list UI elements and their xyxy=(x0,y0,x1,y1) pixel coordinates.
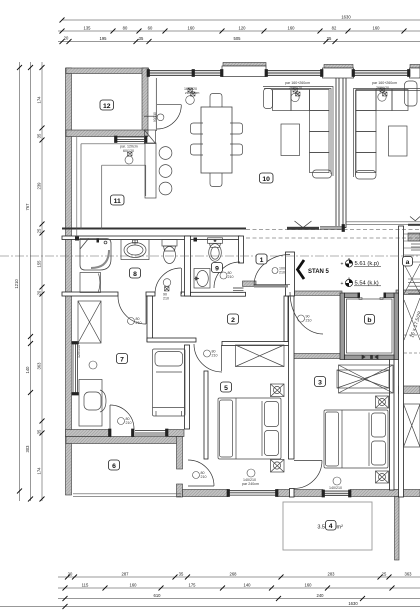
wardrobe room7 xyxy=(78,301,101,343)
nightstand room5 bottom xyxy=(271,460,285,473)
bed room5 double xyxy=(218,398,281,459)
svg-text:210: 210 xyxy=(306,319,312,323)
svg-text:6: 6 xyxy=(112,463,116,470)
desk room7 xyxy=(79,380,102,427)
svg-text:260/120: 260/120 xyxy=(289,86,302,90)
wall bathroom top xyxy=(62,236,240,240)
wall rooms 7-5 xyxy=(185,345,190,429)
svg-text:5: 5 xyxy=(224,385,228,392)
label 10 xyxy=(260,173,274,183)
svg-text:3: 3 xyxy=(318,380,322,387)
nightstand room3 top xyxy=(376,396,389,408)
svg-text:+: + xyxy=(341,262,344,268)
label 4 balcony xyxy=(326,521,337,531)
svg-text:90/210: 90/210 xyxy=(153,112,157,122)
dimension lines bottom xyxy=(0,577,420,607)
svg-text:363: 363 xyxy=(405,572,413,577)
svg-text:7: 7 xyxy=(120,357,124,364)
wall top niche strip 2 xyxy=(324,65,353,69)
svg-text:160: 160 xyxy=(288,26,296,31)
dimension lines left xyxy=(20,62,43,501)
wall stub east xyxy=(204,371,208,459)
svg-text:25: 25 xyxy=(382,572,387,577)
doors xyxy=(110,78,323,489)
dim top row1 xyxy=(62,19,420,21)
wall hall east xyxy=(284,296,288,342)
door vestibule xyxy=(290,292,323,334)
balcony door V mark apt2 xyxy=(410,217,420,221)
thin interior walls xyxy=(62,226,404,497)
corridor parapet sill xyxy=(320,226,344,229)
bed room3 double xyxy=(324,410,388,468)
svg-text:115: 115 xyxy=(82,583,89,588)
svg-text:82: 82 xyxy=(332,26,337,31)
svg-text:268: 268 xyxy=(230,572,238,577)
ticks bottom rowA xyxy=(65,575,392,580)
label 11 xyxy=(111,195,125,205)
svg-text:12: 12 xyxy=(103,103,111,110)
svg-text:160: 160 xyxy=(373,26,381,31)
door wc9 xyxy=(214,262,240,288)
window room5 south xyxy=(228,491,277,496)
svg-text:9: 9 xyxy=(215,266,219,273)
svg-text:a: a xyxy=(406,259,410,266)
svg-text:140: 140 xyxy=(25,366,30,374)
wall balcony6 north band B xyxy=(66,437,181,444)
svg-text:25: 25 xyxy=(37,228,42,233)
balcony 4 outline xyxy=(283,502,372,550)
tiny fixture texts xyxy=(77,81,397,490)
bar stool 2 xyxy=(159,165,172,178)
label 12 xyxy=(100,100,114,110)
dim left col3 xyxy=(41,62,43,501)
toilet bathroom8 xyxy=(162,240,177,264)
coffee table apt1 xyxy=(281,124,300,156)
svg-text:505: 505 xyxy=(234,36,242,41)
level marker kk xyxy=(341,278,382,288)
nightstand room5 top xyxy=(271,384,285,397)
svg-text:1630: 1630 xyxy=(348,601,358,606)
ticks top row2 xyxy=(60,29,407,34)
sofa apt2 xyxy=(354,81,420,179)
svg-text:260/120: 260/120 xyxy=(376,86,389,90)
svg-text:8: 8 xyxy=(133,271,137,278)
svg-text:174: 174 xyxy=(37,96,42,104)
ticks left col3 xyxy=(40,65,45,502)
svg-text:160: 160 xyxy=(305,583,313,588)
washing tray xyxy=(80,273,101,293)
svg-text:2: 2 xyxy=(231,317,235,324)
door room5 xyxy=(221,345,223,371)
svg-text:1630: 1630 xyxy=(341,15,351,20)
apartment divider double wall xyxy=(336,74,346,228)
svg-text:35: 35 xyxy=(37,429,42,434)
bar stool 1 xyxy=(159,147,172,160)
window room12 pass xyxy=(116,137,146,142)
vent glyphs xyxy=(128,88,388,156)
svg-text:135: 135 xyxy=(84,26,92,31)
svg-text:303: 303 xyxy=(25,445,30,453)
wall bathroom south seg1 xyxy=(62,292,118,296)
bed room7 single xyxy=(153,349,186,416)
stairs steps xyxy=(404,234,420,353)
dim bottom rowC xyxy=(58,598,420,600)
nightstand room3 bottom xyxy=(376,471,389,483)
sofa apt1 xyxy=(263,87,333,179)
wall bottom segment right xyxy=(350,490,420,497)
svg-text:par. 120cm: par. 120cm xyxy=(120,145,138,149)
wall bathroom south seg3 xyxy=(181,292,191,296)
wall room3 east xyxy=(390,359,395,491)
svg-text:210: 210 xyxy=(279,271,285,275)
svg-text:174: 174 xyxy=(37,467,42,475)
svg-text:610: 610 xyxy=(154,593,162,598)
balcony6 south edge xyxy=(73,494,181,497)
left wall inner face line xyxy=(76,137,78,236)
threshold bar apt1 xyxy=(287,227,319,230)
svg-text:80: 80 xyxy=(123,26,128,31)
closet stair side xyxy=(404,404,420,447)
dimension lines top xyxy=(58,20,420,42)
window room7 west xyxy=(72,343,79,393)
door bathroom8 xyxy=(181,268,183,294)
coffee table apt2 xyxy=(389,126,408,156)
ticks left col1 xyxy=(17,65,22,494)
svg-text:239: 239 xyxy=(37,182,42,190)
window living apt2 xyxy=(353,71,409,76)
svg-text:1210: 1210 xyxy=(14,279,19,289)
wall balcony6 right lower xyxy=(177,484,183,497)
dim top row3 xyxy=(58,41,420,43)
label 7 xyxy=(117,354,128,364)
wall room3 west below door xyxy=(290,489,295,498)
window living 2 xyxy=(266,71,322,76)
wall balcony6 north band A left xyxy=(66,430,110,437)
wall corridor south seg2 xyxy=(295,291,343,295)
door balcony stub xyxy=(188,485,214,487)
svg-text:210: 210 xyxy=(126,421,132,425)
svg-text:3.5: 3.5 xyxy=(317,525,325,531)
centerline dash-dot xyxy=(0,255,420,257)
wall nook east xyxy=(286,252,295,296)
wall bottom segment 5-3 xyxy=(277,490,323,497)
label 5 xyxy=(221,382,232,392)
svg-text:160: 160 xyxy=(130,583,138,588)
wall stair south xyxy=(399,386,420,394)
label 9 xyxy=(212,263,223,273)
window wc south xyxy=(233,288,244,292)
ticks left col2 xyxy=(28,65,33,502)
svg-text:35: 35 xyxy=(179,572,184,577)
wall top niche strip 3 xyxy=(410,65,420,69)
wall wc south xyxy=(191,292,246,296)
svg-text:160: 160 xyxy=(188,26,196,31)
wall corridor south seg1 xyxy=(243,281,257,286)
dim left col2 xyxy=(30,62,32,501)
wall wc east xyxy=(239,236,244,263)
svg-text:20: 20 xyxy=(37,290,42,295)
dim bottom rowA xyxy=(58,576,420,578)
wall hall west xyxy=(147,296,153,342)
dashed corridor lines xyxy=(246,230,420,239)
room number boxes xyxy=(100,100,413,530)
sink wc9 xyxy=(194,269,210,289)
sink bathroom8 xyxy=(121,240,149,260)
svg-text:210: 210 xyxy=(228,275,234,279)
dim left col1 xyxy=(19,62,21,501)
label 8 xyxy=(130,268,141,278)
niche boxes top wall xyxy=(222,66,420,78)
bar stool 3 xyxy=(159,182,172,195)
closet below elevator xyxy=(339,365,394,393)
door label circles xyxy=(89,93,386,485)
dining chairs xyxy=(191,94,243,187)
ticks bottom rowB xyxy=(63,586,395,591)
label b xyxy=(365,315,375,325)
wall balcony6 right xyxy=(177,437,183,470)
door room7 balcony xyxy=(110,405,134,429)
svg-text:210: 210 xyxy=(163,297,169,301)
svg-text:175: 175 xyxy=(189,583,197,588)
svg-text:287: 287 xyxy=(122,572,130,577)
dining table xyxy=(201,107,232,173)
svg-text:283: 283 xyxy=(328,572,336,577)
ticks top row3 xyxy=(60,39,338,44)
svg-text:240: 240 xyxy=(317,593,325,598)
elevator interior marks xyxy=(362,355,378,359)
svg-text:210: 210 xyxy=(212,354,218,358)
wall room12 bottom xyxy=(66,130,148,137)
svg-text:20: 20 xyxy=(64,36,69,41)
window right stairs xyxy=(411,244,420,250)
svg-text:155: 155 xyxy=(37,260,42,268)
svg-text:par 240cm: par 240cm xyxy=(242,482,259,486)
svg-text:+: + xyxy=(341,281,344,287)
wall bottom segment rooms 6-5 xyxy=(183,490,229,497)
svg-text:m²: m² xyxy=(337,525,344,531)
svg-text:1: 1 xyxy=(260,257,264,264)
kitchen island counter xyxy=(145,143,156,198)
svg-text:35: 35 xyxy=(139,36,144,41)
wall hall south seg1 xyxy=(147,338,196,342)
svg-text:11: 11 xyxy=(114,198,121,205)
windows top wall xyxy=(72,70,420,498)
wall room12 right xyxy=(142,68,148,131)
dim top row2 xyxy=(58,30,420,32)
kitchen counter L lines xyxy=(81,144,146,229)
label 3 xyxy=(315,377,326,387)
elevator shaft walls xyxy=(340,293,399,360)
ticks bottom rowC xyxy=(63,596,366,601)
svg-text:120/140: 120/140 xyxy=(77,345,81,358)
svg-text:120: 120 xyxy=(239,26,247,31)
label 1 xyxy=(256,254,267,264)
chair room7 xyxy=(84,390,106,412)
svg-text:20: 20 xyxy=(68,572,73,577)
svg-text:par 160+260cm: par 160+260cm xyxy=(285,81,310,85)
wall vestibule room3 top xyxy=(290,354,342,359)
STAN 5 arrow xyxy=(298,260,305,279)
svg-text:210: 210 xyxy=(201,475,207,479)
window room3 south xyxy=(323,491,350,496)
wall top niche strip 1 xyxy=(223,63,266,67)
window room7 balcony xyxy=(135,431,166,436)
ticks top row1 xyxy=(60,18,65,23)
wall balcony6 north band A right xyxy=(166,430,184,437)
level marker kp xyxy=(341,258,382,268)
svg-text:10: 10 xyxy=(262,176,270,183)
wall nook-room3 west xyxy=(289,296,295,459)
wardrobe room3 xyxy=(337,370,389,388)
wall top segment 1 xyxy=(66,68,149,74)
svg-text:b: b xyxy=(367,317,371,324)
svg-text:140: 140 xyxy=(244,583,252,588)
balcony door V mark apt1 xyxy=(295,221,312,228)
wall bathroom south seg2 xyxy=(146,292,155,296)
jamb marks bathroom band xyxy=(75,237,197,242)
svg-text:par 160+260cm: par 160+260cm xyxy=(372,81,397,85)
door room7 xyxy=(145,296,147,324)
line above bathroom band xyxy=(62,228,246,230)
svg-text:767: 767 xyxy=(25,203,30,211)
svg-text:4: 4 xyxy=(329,523,333,530)
svg-text:195: 195 xyxy=(100,36,108,41)
label a xyxy=(403,257,413,267)
wall corridor south seg3 xyxy=(396,290,420,295)
wall right lower extension xyxy=(395,497,400,561)
wall apt2 south near stairs xyxy=(408,233,420,241)
svg-text:STAN 5: STAN 5 xyxy=(308,269,330,275)
svg-text:60: 60 xyxy=(148,26,153,31)
door room3 xyxy=(294,460,322,462)
svg-text:25: 25 xyxy=(327,36,332,41)
wall hall south seg2 xyxy=(222,342,290,346)
svg-text:zid 90cm: zid 90cm xyxy=(185,91,199,95)
entry closet xyxy=(144,130,155,144)
window living 1 xyxy=(149,71,223,76)
wall left outer xyxy=(66,63,420,561)
dim bottom rowB xyxy=(58,587,420,589)
svg-text:210: 210 xyxy=(136,321,142,325)
label 6 xyxy=(109,460,120,470)
svg-text:140/210: 140/210 xyxy=(329,486,342,490)
wardrobe room5 xyxy=(236,345,285,367)
wall wc west xyxy=(185,236,191,296)
wall stairwell west white xyxy=(399,226,404,497)
ticks bottom rowD xyxy=(63,604,68,609)
bathtub corner shower xyxy=(80,239,111,271)
door apartment entry xyxy=(254,285,288,288)
svg-text:60/120: 60/120 xyxy=(123,149,134,153)
svg-text:363: 363 xyxy=(37,362,42,370)
toilet wc9 xyxy=(208,238,223,261)
svg-text:35: 35 xyxy=(37,133,42,138)
label 2 xyxy=(228,314,239,324)
dim bottom rowD xyxy=(0,606,420,608)
door entry room12 wall xyxy=(155,78,157,131)
